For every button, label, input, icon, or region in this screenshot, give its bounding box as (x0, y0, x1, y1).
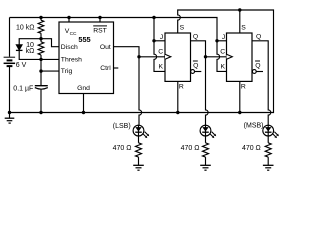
svg-text:K: K (159, 64, 164, 71)
clock triangle FF2 (227, 54, 233, 59)
svg-text:Out: Out (100, 44, 111, 51)
junction FF1 Q to FF2 clock branch (204, 55, 207, 58)
pin FF2 S up to S rail (239, 10, 241, 33)
junction battery minus on ground rail (8, 111, 11, 114)
flip-flop U3 (JK) box (227, 33, 253, 81)
svg-text:C: C (158, 48, 163, 55)
wire FF1 J-K tie vertical with hop over clock wire (154, 18, 165, 72)
flip-flop U2 (JK) box (165, 33, 191, 81)
battery B1 6 V (4, 57, 16, 66)
wire left edge from rail to battery + (9, 18, 11, 57)
wire FF1 Q to FF2 clock and middle LED (hop over ground rail) (191, 41, 209, 126)
wire junction to 555 Disch (stepped) (41, 39, 59, 47)
svg-text:Thresh: Thresh (61, 56, 82, 63)
svg-text:Disch: Disch (61, 44, 78, 51)
junction Vcc pin on Vcc rail (67, 16, 70, 19)
clock triangle FF1 (165, 54, 171, 59)
wire FF2 J pin (217, 40, 227, 42)
diode D1 (16, 39, 41, 60)
svg-text:R: R (179, 83, 184, 90)
resistor R5 470 Ohm (265, 136, 271, 165)
junction FF2 S pin on S rail (238, 8, 241, 11)
pin FF1 Qbar bubble and stub (191, 70, 195, 74)
svg-text:S: S (180, 24, 185, 31)
wire FF2 Q to MSB LED (hop over ground rail) (252, 41, 271, 126)
svg-text:R: R (241, 83, 246, 90)
svg-text:RST: RST (93, 27, 107, 34)
wire junction to 555 Thresh (41, 58, 59, 60)
wire battery - down to ground rail (9, 67, 11, 113)
ground (LSB) (133, 165, 144, 170)
capacitor C1 0.1 uF (35, 71, 48, 112)
wire down to Trig junction (40, 59, 42, 71)
junction Out to FF1 clock branch (137, 55, 140, 58)
pin Vcc stub (68, 18, 70, 23)
junction FF1 J pin (152, 39, 155, 42)
junction C1 on ground rail (39, 111, 42, 114)
ground (middle) (200, 165, 211, 170)
pin FF2 R down to ground rail (239, 81, 241, 112)
svg-text:470 Ω: 470 Ω (113, 145, 132, 152)
svg-text:J: J (160, 34, 163, 41)
junction node R1/R2/D1/Disch (39, 37, 42, 40)
svg-text:C: C (220, 48, 225, 55)
wire clock into FF1 C (139, 56, 165, 58)
svg-text:Gnd: Gnd (77, 85, 90, 92)
svg-text:K: K (221, 64, 226, 71)
LED D3 (middle) (200, 125, 216, 138)
pin Ctrl stub (114, 67, 119, 69)
wire 555 Out to FF1 clock and LSB LED (hop over ground rail) (114, 47, 142, 126)
ground (main, battery) (5, 113, 15, 124)
svg-text:Q: Q (193, 33, 198, 40)
ground (MSB) (263, 165, 274, 170)
svg-text:Q: Q (193, 62, 198, 69)
svg-text:(MSB): (MSB) (244, 123, 264, 130)
svg-text:S: S (241, 24, 246, 31)
resistor R2 10 kOhm (lower) (38, 39, 44, 60)
svg-text:0.1 µF: 0.1 µF (13, 85, 33, 92)
pin Gnd stub (83, 94, 85, 113)
junction FF1 J-K tie on Vcc rail (152, 16, 155, 19)
junction FF2 J pin (215, 39, 218, 42)
op-amp U1 555 timer box (59, 22, 114, 94)
wire ground rail + right edge + S rail (y=10) + FF1 S pin with hop over Vcc rail (10, 10, 274, 113)
svg-text:470 Ω: 470 Ω (242, 145, 261, 152)
wire FF1 J pin (154, 40, 165, 42)
junction node Trig/C1 (39, 69, 42, 72)
svg-text:555: 555 (78, 35, 90, 44)
svg-text:J: J (222, 34, 225, 41)
junction RST pin on Vcc rail (98, 16, 101, 19)
junction FF1 R on ground rail (176, 111, 179, 114)
junction 555 Gnd on ground rail (82, 111, 85, 114)
resistor R1 10 kOhm (top) (38, 18, 44, 39)
resistor R4 470 Ohm (203, 136, 209, 165)
wire clock into FF2 C (206, 56, 227, 58)
resistor R3 470 Ohm (136, 136, 142, 165)
svg-text:Q: Q (256, 33, 261, 40)
LED D2 (LSB) (133, 125, 149, 138)
svg-text:Q: Q (255, 62, 260, 69)
pin FF2 Qbar bubble and stub (252, 70, 256, 74)
wire junction to 555 Trig (41, 70, 59, 72)
junction FF2 R on ground rail (238, 111, 241, 114)
svg-text:Ctrl: Ctrl (100, 65, 111, 72)
pin FF1 R down to ground rail (177, 81, 179, 112)
wire Vcc rail (y=17.5) plus FF2 J-K tie vertical with hop over clock wire (10, 18, 227, 72)
junction node R2/D1/Thresh (39, 58, 42, 61)
pin RST stub (99, 18, 101, 23)
svg-text:kΩ: kΩ (26, 48, 35, 55)
svg-text:CC: CC (70, 31, 77, 37)
svg-text:(LSB): (LSB) (113, 123, 131, 130)
junction R1 top on Vcc rail (39, 16, 42, 19)
svg-text:Trig: Trig (61, 68, 73, 75)
svg-text:10 kΩ: 10 kΩ (16, 24, 34, 31)
LED D4 (MSB) (263, 125, 279, 138)
svg-text:6 V: 6 V (16, 62, 27, 69)
svg-text:470 Ω: 470 Ω (181, 145, 200, 152)
